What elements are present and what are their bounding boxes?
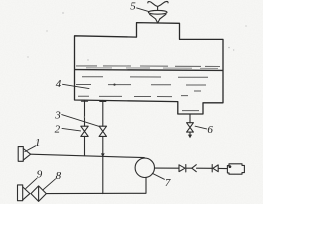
svg-text:2: 2	[55, 123, 61, 135]
svg-text:8: 8	[56, 170, 62, 182]
svg-text:9: 9	[37, 169, 43, 181]
svg-text:5: 5	[130, 0, 136, 12]
svg-text:6: 6	[207, 124, 213, 136]
svg-text:7: 7	[165, 177, 171, 189]
svg-text:3: 3	[54, 110, 61, 122]
svg-text:4: 4	[56, 78, 62, 90]
svg-text:1: 1	[35, 137, 41, 149]
